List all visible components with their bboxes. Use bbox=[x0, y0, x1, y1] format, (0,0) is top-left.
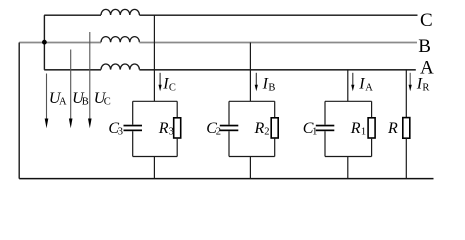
svg-text:1: 1 bbox=[312, 126, 317, 137]
capacitor C3 bbox=[124, 125, 143, 132]
wire: drop from phase A to branch 1 bbox=[347, 70, 349, 102]
svg-text:B: B bbox=[268, 82, 275, 93]
wire: phase C horizontal line (right segment to label C) bbox=[139, 14, 417, 16]
svg-text:R: R bbox=[254, 120, 265, 137]
capacitor C2 bbox=[220, 125, 239, 132]
arrow IR (current arrow) bbox=[409, 73, 412, 91]
wire: resistor R lower lead to bus bbox=[405, 138, 407, 178]
svg-text:C: C bbox=[169, 82, 176, 93]
wire: drop from phase C to branch 3 bbox=[153, 15, 155, 101]
wire: branch 3 left leg upper bbox=[132, 101, 134, 124]
wire: branch 1 right leg upper bbox=[371, 101, 373, 118]
wire: branch 1 left leg lower bbox=[324, 131, 326, 156]
svg-text:1: 1 bbox=[361, 126, 366, 137]
capacitor C1 bbox=[316, 125, 335, 132]
arrow UC (phase voltage arrow) bbox=[88, 32, 92, 128]
wire: branch 3 drop to bus bbox=[153, 157, 155, 179]
wire: branch 2 top bar bbox=[229, 100, 275, 102]
wire: branch 2 right leg lower bbox=[274, 138, 276, 157]
svg-text:R: R bbox=[158, 120, 169, 137]
wire: branch 3 bottom bar bbox=[133, 156, 178, 158]
wire: branch 1 top bar bbox=[325, 100, 372, 102]
node N (junction dot on phase B line) bbox=[42, 40, 47, 45]
inductor L1 (phase C winding) bbox=[101, 9, 139, 15]
svg-text:R: R bbox=[422, 82, 429, 93]
wire: branch 1 drop to bus bbox=[347, 157, 349, 179]
arrow IC (current arrow) bbox=[159, 73, 162, 91]
wire: branch 1 bottom bar bbox=[325, 156, 372, 158]
wire: neutral star-point vertical (joins three winding left ends) bbox=[43, 15, 45, 70]
svg-text:A: A bbox=[59, 97, 67, 108]
wire: left earth conductor vertical bbox=[18, 43, 20, 179]
wire: branch 1 left leg upper bbox=[324, 101, 326, 124]
arrow UA (phase voltage arrow) bbox=[45, 74, 49, 129]
arrow IA (current arrow) bbox=[351, 73, 354, 91]
wire: branch 2 bottom bar bbox=[229, 156, 275, 158]
resistor R3 bbox=[174, 118, 181, 138]
svg-text:A: A bbox=[420, 57, 434, 78]
inductor L3 (phase A winding) bbox=[101, 64, 139, 70]
wire: drop from phase B to branch 2 bbox=[249, 43, 251, 102]
svg-text:3: 3 bbox=[169, 126, 174, 137]
wire: phase C horizontal line (left segment) bbox=[44, 14, 101, 16]
arrow IB (current arrow) bbox=[255, 73, 258, 91]
wire: phase B horizontal line (left segment, grey) bbox=[19, 42, 101, 44]
svg-text:C: C bbox=[104, 97, 111, 108]
svg-text:A: A bbox=[365, 82, 373, 93]
resistor R2 bbox=[271, 118, 278, 138]
wire: branch 2 drop to bus bbox=[249, 157, 251, 179]
wire: phase A horizontal line (right segment to label A) bbox=[139, 69, 415, 71]
wire: branch 1 right leg lower bbox=[371, 138, 373, 157]
inductor L2 (phase B winding) bbox=[101, 37, 139, 43]
resistor R1 bbox=[368, 118, 375, 138]
svg-text:R: R bbox=[387, 120, 398, 137]
wire: branch 2 right leg upper bbox=[274, 101, 276, 118]
wire: phase B horizontal line (right segment to label B, grey) bbox=[139, 42, 417, 44]
wire: bottom earth bus bbox=[19, 178, 433, 180]
svg-text:C: C bbox=[420, 10, 433, 31]
wire: branch 3 right leg upper bbox=[176, 101, 178, 118]
arrow UB (phase voltage arrow) bbox=[69, 50, 73, 129]
wire: branch 2 left leg lower bbox=[228, 131, 230, 156]
resistor R bbox=[403, 118, 410, 139]
svg-text:B: B bbox=[418, 36, 431, 57]
svg-text:2: 2 bbox=[264, 126, 269, 137]
wire: branch 2 left leg upper bbox=[228, 101, 230, 124]
wire: branch 3 right leg lower bbox=[176, 138, 178, 157]
svg-text:3: 3 bbox=[118, 126, 123, 137]
wire: phase A horizontal line (left segment) bbox=[44, 69, 101, 71]
wire: branch 3 left leg lower bbox=[132, 131, 134, 156]
svg-text:B: B bbox=[82, 97, 89, 108]
wire: drop from phase A to resistor R (upper) bbox=[405, 70, 407, 118]
svg-text:2: 2 bbox=[216, 126, 221, 137]
wire: branch 3 top bar bbox=[133, 100, 178, 102]
svg-text:R: R bbox=[350, 120, 361, 137]
